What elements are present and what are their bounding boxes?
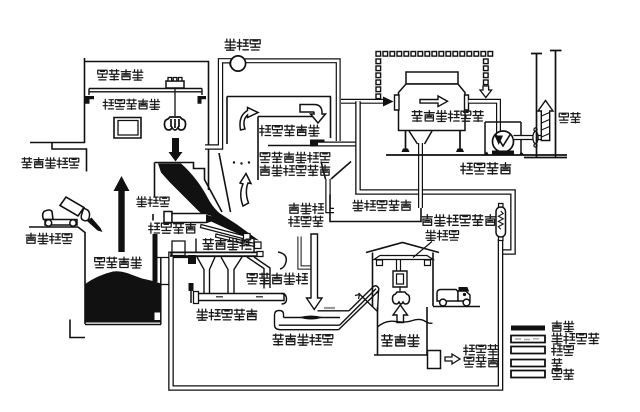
air dots — [233, 161, 235, 163]
chimney flow arrow hatched — [538, 101, 553, 141]
pit floor — [85, 324, 161, 326]
fly-ash/heat-exchanger duct run — [358, 101, 513, 252]
fan outlet pipe — [514, 135, 547, 140]
startup burner label2 燃烧器 — [289, 216, 323, 227]
black arrow into ID fan — [495, 136, 504, 146]
chimney label 烟囱 — [559, 113, 580, 123]
refuse grab label 垃圾抓斗 — [98, 70, 143, 81]
black ash in trough — [299, 316, 323, 320]
furnace front slant wall — [219, 153, 231, 212]
black arrow dumping — [87, 218, 103, 233]
gray ash streak — [324, 307, 335, 309]
ID fan housing box — [485, 122, 521, 155]
legend bar flue gas — [511, 336, 545, 343]
ESP dust funnel — [409, 131, 432, 144]
legend bar drain — [511, 371, 545, 378]
pusher ram — [164, 212, 172, 223]
bottom ash conveyor label 底灰输送带 — [273, 334, 333, 345]
drying grate label 干燥炉床 — [149, 223, 196, 234]
rear discharge pipe — [300, 237, 312, 268]
suction duct from hall to roof fan — [205, 61, 234, 147]
crane trolley — [166, 81, 184, 88]
fly ash conveyor label 飞灰输送机 — [353, 200, 411, 211]
air preheater box top — [258, 116, 313, 118]
duct roof fan to boiler — [240, 61, 338, 141]
ash conveyor — [196, 294, 284, 301]
feed hopper rim + right chute wall — [155, 163, 223, 213]
under-grate funnel 2 — [221, 257, 242, 293]
drying grate strip — [201, 225, 246, 240]
black garbage band on grate — [158, 164, 259, 241]
legend ash 灰 — [552, 359, 562, 370]
air register black block — [188, 255, 196, 264]
ESP outlet flange — [465, 95, 469, 110]
ESP legs — [406, 131, 461, 153]
bunker hall left wall + upper ledge — [30, 58, 85, 143]
spray device label2 用水喷射装置 — [260, 165, 330, 176]
air preheater black element — [310, 140, 325, 147]
crane rail beam — [89, 89, 202, 96]
refuse grab claw — [164, 117, 185, 130]
fan pedestal — [492, 151, 514, 156]
hot water heat exchanger capsule — [496, 207, 506, 237]
grate label box sides — [196, 239, 254, 253]
ESP body — [406, 72, 458, 84]
chimney base line — [524, 157, 567, 159]
furnace bottom hopper — [321, 162, 351, 180]
ash mound outline — [378, 319, 433, 327]
label leader tick — [152, 214, 154, 221]
ash hoist body — [393, 271, 407, 287]
unloading platform label 卸料平台 — [26, 233, 72, 244]
black arrow into ESP — [383, 97, 394, 107]
heat exchanger label 温水热交换器 — [422, 215, 495, 226]
black arrow garbage into hopper — [169, 138, 183, 162]
after-burning grate label 后燃烧炉床 — [247, 273, 307, 284]
drain duct long loop — [171, 239, 501, 388]
grab operator room label 抓斗操作室 — [103, 99, 159, 109]
grab hoist cable — [174, 88, 176, 116]
ESP flow arrow — [420, 96, 448, 107]
ESP inlet flange — [395, 95, 400, 110]
equipment base line — [386, 154, 567, 156]
boiler right wall — [330, 97, 332, 139]
operator room window — [114, 118, 141, 139]
legend air 空气 — [552, 345, 574, 355]
roof exhaust fan — [230, 56, 245, 71]
ESP label 静电集尘装置 — [412, 111, 483, 122]
combustion grate strip — [216, 234, 258, 247]
hollow down arrow to bottom ash — [307, 234, 323, 310]
legend bar garbage (black) — [511, 326, 545, 331]
rail support bracket right — [198, 96, 207, 104]
air preheater box left — [257, 117, 259, 181]
beam end brackets — [377, 260, 431, 266]
ash crane beam — [374, 256, 433, 260]
curved arrow air up-right — [240, 108, 258, 131]
under-grate funnel 1 — [197, 257, 215, 293]
pipe preheater to downcomer — [318, 142, 360, 147]
ash conveyor label 灰渣输送带 — [197, 309, 257, 320]
after-burning chute slant — [247, 257, 270, 289]
truck platform — [433, 306, 480, 308]
dotted line end arrow — [480, 86, 492, 98]
ID fan label 引风风机 — [461, 163, 511, 175]
ash pit label 灰储坑 — [382, 335, 419, 347]
ash grab link — [399, 287, 401, 292]
ESP feet — [402, 149, 465, 153]
fly ash conveyor box — [330, 195, 421, 222]
pit right wall — [160, 258, 162, 325]
ash grab claw — [392, 292, 409, 304]
refuse pit label 垃圾储坑 — [95, 257, 142, 268]
chimney walls — [537, 51, 556, 158]
duct ESP to ID fan — [469, 101, 499, 135]
feed hopper left wall — [154, 163, 156, 197]
ash quench water box — [428, 351, 441, 369]
fan feet — [483, 152, 525, 156]
incline support brace — [359, 293, 378, 312]
dump truck on platform — [43, 210, 53, 220]
rail support bracket left — [85, 96, 94, 104]
ash grab label leader — [413, 242, 432, 258]
air preheater mid line — [268, 145, 321, 147]
refuse inlet ledge + wall — [52, 143, 87, 172]
spray device label 燃烧烟气降温 — [260, 152, 330, 163]
outlet damper — [533, 131, 538, 143]
quench water label2 却废水 — [464, 357, 498, 368]
hollow up arrow ash pit — [393, 305, 408, 323]
thick bunker/furnace partition wall — [153, 234, 158, 282]
chimney top caps — [531, 51, 562, 54]
grate support beam double line — [170, 253, 257, 256]
ash house walls — [373, 253, 434, 308]
ash grab label 灰抓斗 — [426, 230, 459, 240]
pusher label 推料器 — [137, 197, 169, 207]
exhaust fan label 抽风机 — [225, 39, 260, 50]
refuse inlet label 垃圾投入口 — [22, 158, 79, 169]
hollow right arrow waste water — [445, 354, 460, 364]
boiler enclosure left wall — [226, 97, 228, 145]
bottom ash trough — [275, 311, 284, 330]
bunker hall roof + right wall — [85, 62, 209, 191]
hopper floor line — [155, 257, 189, 259]
air plenum box — [172, 241, 185, 256]
pit sump — [70, 320, 85, 338]
ash hoist ropes — [397, 260, 401, 272]
curved arrow flue gas down — [300, 105, 326, 124]
combustion grate label 燃烧炉床 — [203, 239, 251, 250]
legend garbage 垃圾 — [552, 321, 574, 332]
garbage truck — [437, 290, 458, 302]
ash pit walls — [374, 307, 428, 355]
conveyor left wall — [190, 291, 192, 303]
inclined bottom-ash conveyor — [339, 287, 379, 330]
ESP dust drop pipe — [418, 143, 423, 208]
duct end caps — [171, 252, 257, 257]
after-burning grate hook — [278, 252, 286, 269]
startup burner pipe — [328, 179, 334, 211]
startup burner label 起炉用 — [289, 203, 323, 214]
ash house roof — [366, 243, 439, 253]
air preheater label 空气预热器 — [260, 125, 319, 136]
legend flue gas 燃烧烟气 — [552, 333, 599, 344]
legend drain 排水 — [552, 369, 574, 380]
beam end box — [257, 252, 263, 257]
black arrow garbage lift — [114, 176, 130, 252]
unloading platform + pit left wall — [29, 227, 85, 324]
quench water label 灰渣冷 — [464, 345, 498, 356]
pit-duct tie line — [161, 284, 169, 286]
curved arrow air up in furnace — [240, 174, 251, 207]
flue duct to ESP — [341, 99, 386, 104]
legend bar ash — [511, 360, 545, 367]
ID fan — [493, 131, 514, 152]
ESP dotted control line — [376, 52, 493, 99]
boiler enclosure top — [227, 96, 331, 98]
garbage pile in pit — [85, 271, 161, 322]
legend bar air — [511, 347, 545, 354]
conveyor corner black block — [189, 283, 194, 291]
